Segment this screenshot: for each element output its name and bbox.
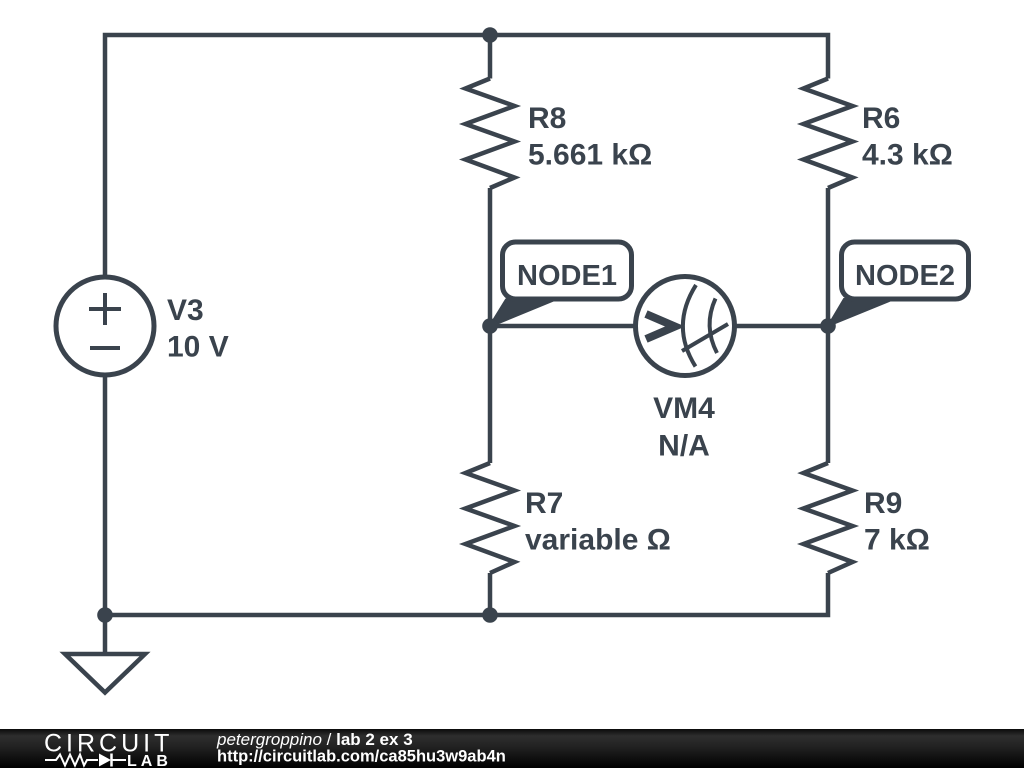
ground: [65, 654, 145, 693]
wire R8 top lead: [488, 35, 493, 79]
footer bar: [0, 729, 1024, 768]
svg-text:NODE1: NODE1: [517, 260, 617, 292]
junction dot node1: [482, 318, 498, 334]
wire R8 to node1: [488, 188, 493, 326]
node NODE1: [489, 242, 632, 327]
wire node1 to voltmeter: [490, 324, 636, 329]
junction dot top rail: [482, 27, 498, 43]
resistor R6: [804, 79, 853, 189]
wire R6 to node2: [826, 188, 831, 326]
svg-text:variable Ω: variable Ω: [525, 524, 671, 557]
svg-text:R7: R7: [525, 487, 563, 520]
wire left+top rail: [105, 35, 828, 278]
voltmeter VM4: [636, 277, 735, 463]
svg-text:5.661 kΩ: 5.661 kΩ: [528, 139, 652, 172]
CircuitLab logo: [44, 730, 173, 768]
junction dot bottom middle: [482, 607, 498, 623]
wire bottom rail: [105, 375, 828, 616]
wire R7 bottom lead: [488, 573, 493, 615]
svg-text:R9: R9: [864, 487, 902, 520]
wire voltmeter to node2: [734, 324, 828, 329]
svg-text:VM4: VM4: [653, 392, 715, 425]
svg-text:4.3 kΩ: 4.3 kΩ: [862, 139, 953, 172]
svg-text:7 kΩ: 7 kΩ: [864, 524, 930, 557]
svg-text:V3: V3: [167, 294, 204, 327]
svg-text:N/A: N/A: [658, 430, 710, 463]
junction dot node2: [820, 318, 836, 334]
voltage source V3: [56, 277, 229, 375]
resistor R9: [804, 463, 853, 573]
svg-text:http://circuitlab.com/ca85hu3w: http://circuitlab.com/ca85hu3w9ab4n: [217, 748, 506, 766]
junction dot bottom left: [97, 607, 113, 623]
svg-text:NODE2: NODE2: [855, 260, 955, 292]
resistor R8: [466, 79, 515, 189]
resistor R7: [466, 463, 515, 573]
wire node1 to R7: [488, 326, 493, 463]
svg-text:R8: R8: [528, 102, 566, 135]
svg-text:R6: R6: [862, 102, 900, 135]
svg-text:petergroppino / lab 2 ex 3: petergroppino / lab 2 ex 3: [216, 730, 413, 749]
svg-text:10 V: 10 V: [167, 331, 229, 364]
wire ground stub: [103, 615, 108, 654]
wire node2 to R9: [826, 326, 831, 463]
node NODE2: [828, 242, 969, 326]
svg-text:LAB: LAB: [127, 753, 172, 768]
